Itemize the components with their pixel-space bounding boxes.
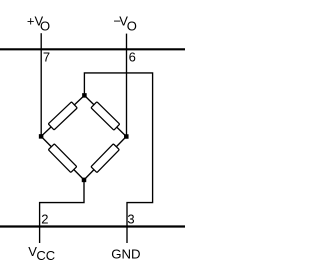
- wire bridge arm top-right: [84, 95, 126, 136]
- svg-text:GND: GND: [111, 247, 140, 262]
- svg-text:O: O: [40, 19, 50, 34]
- node left (junction dot): [39, 134, 44, 139]
- bottom rail (package boundary line): [0, 225, 185, 227]
- wire top node to pin 3 (GND) jog: [84, 73, 152, 243]
- node bottom (junction dot): [82, 178, 87, 183]
- wire bridge arm left-bottom: [41, 136, 84, 180]
- svg-text:7: 7: [43, 49, 50, 64]
- svg-text:CC: CC: [36, 248, 55, 263]
- node right (junction dot): [124, 134, 129, 139]
- label VCC: [28, 244, 55, 263]
- label +VO: [27, 14, 50, 34]
- svg-text:O: O: [127, 19, 137, 34]
- svg-text:6: 6: [129, 49, 136, 64]
- resistor lower-right bridge element: [91, 144, 119, 173]
- wire bridge arm left-top: [41, 95, 84, 136]
- svg-text:2: 2: [41, 211, 48, 226]
- pin 7 wire (+VO lead down to left bridge node): [40, 33, 42, 136]
- wire bottom node to pin 2 (VCC) jog: [40, 180, 84, 243]
- resistor lower-left bridge element: [48, 144, 76, 173]
- resistor upper-left bridge element: [48, 102, 77, 130]
- svg-text:3: 3: [127, 211, 134, 226]
- resistor upper-right bridge element: [91, 102, 120, 130]
- top rail (package boundary line): [0, 48, 185, 50]
- wire bridge arm bottom-right: [84, 137, 126, 180]
- label -VO: [113, 14, 137, 34]
- node top (junction dot): [82, 93, 87, 98]
- pin 6 wire (-VO lead down to right bridge node): [126, 34, 128, 137]
